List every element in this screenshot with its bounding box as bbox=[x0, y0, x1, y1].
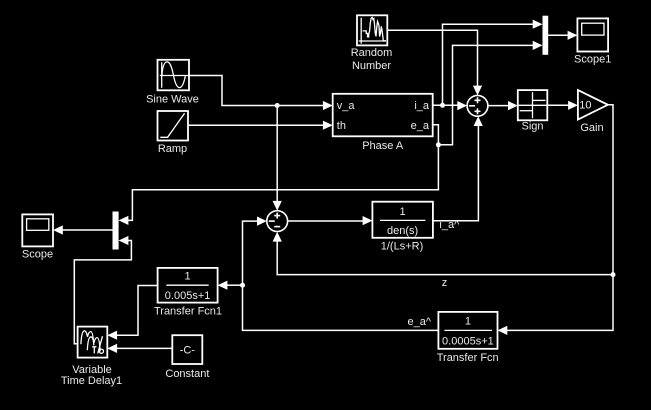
svg-text:Random: Random bbox=[351, 47, 393, 59]
block Constant bbox=[172, 335, 202, 364]
block Variable Time Delay1 bbox=[78, 327, 108, 358]
svg-text:Number: Number bbox=[352, 60, 391, 72]
svg-text:Sine Wave: Sine Wave bbox=[146, 94, 199, 106]
wire e_a junction to Mux1 bottom input bbox=[438, 41, 542, 145]
block Ramp bbox=[158, 111, 189, 141]
svg-text:z: z bbox=[442, 277, 448, 289]
wire Mux2 output to Scope bbox=[53, 225, 113, 234]
wire Random Number to sum S2 top bbox=[387, 30, 482, 95]
block Gain bbox=[578, 90, 608, 119]
junction e_a bbox=[436, 142, 441, 147]
block Random Number bbox=[357, 15, 387, 45]
svg-text:den(s): den(s) bbox=[387, 225, 418, 237]
junction i_a bbox=[440, 103, 445, 108]
svg-text:Transfer Fcn: Transfer Fcn bbox=[437, 352, 499, 364]
svg-text:i_a: i_a bbox=[414, 100, 430, 112]
wire sum S1 to 1/(Ls+R) input bbox=[288, 216, 373, 225]
mux Mux2 bbox=[113, 212, 119, 250]
wire Mux1 output to Scope1 bbox=[548, 31, 577, 40]
svg-text:th: th bbox=[337, 120, 346, 132]
svg-text:Constant: Constant bbox=[165, 368, 209, 380]
svg-text:1: 1 bbox=[400, 206, 406, 218]
wire z junction down to Transfer Fcn input bbox=[498, 275, 614, 335]
svg-text:1: 1 bbox=[185, 270, 191, 282]
block Transfer Fcn1 bbox=[158, 268, 218, 303]
junction z bbox=[611, 272, 616, 277]
mux Mux1 bbox=[543, 16, 549, 55]
svg-text:Ramp: Ramp bbox=[158, 143, 187, 155]
wire Phase A e_a to junction bbox=[433, 125, 439, 145]
wire Constant to Variable Time Delay1 bottom input bbox=[107, 344, 172, 353]
svg-text:0.005s+1: 0.005s+1 bbox=[165, 290, 211, 302]
svg-text:Scope: Scope bbox=[22, 249, 53, 261]
sum S1 (left) bbox=[267, 211, 288, 232]
svg-text:-C-: -C- bbox=[180, 344, 196, 356]
svg-text:Phase A: Phase A bbox=[362, 140, 404, 152]
wire z line to sum S1 bottom bbox=[273, 232, 613, 275]
wire Sign to Gain bbox=[547, 101, 578, 110]
junction on v_a wire bbox=[275, 103, 280, 108]
svg-text:10: 10 bbox=[579, 100, 591, 112]
wire v_a junction down to sum S1 top bbox=[273, 106, 282, 211]
svg-text:1: 1 bbox=[465, 316, 471, 328]
block Scope1 bbox=[577, 18, 608, 51]
svg-text:Sign: Sign bbox=[521, 120, 543, 132]
wire Transfer Fcn output to sum S1 left bbox=[243, 217, 439, 331]
wire 1/(Ls+R) output to sum S2 bottom bbox=[433, 116, 483, 221]
wire sum S2 to Sign bbox=[488, 101, 518, 110]
svg-text:1/(Ls+R): 1/(Ls+R) bbox=[381, 240, 424, 252]
wire junction to Transfer Fcn1 input bbox=[218, 281, 243, 290]
wire Gain output down to z junction bbox=[608, 105, 613, 275]
svg-text:i_a^: i_a^ bbox=[439, 219, 460, 231]
block Scope bbox=[22, 214, 53, 246]
svg-text:e_a^: e_a^ bbox=[407, 316, 431, 328]
wire i_a junction up to Mux1 top input bbox=[443, 20, 543, 106]
svg-text:Gain: Gain bbox=[580, 122, 603, 134]
block Transfer Fcn bbox=[438, 312, 497, 349]
block Sine Wave bbox=[158, 60, 190, 91]
label Variable Time Delay1 bbox=[61, 364, 122, 387]
svg-text:0.0005s+1: 0.0005s+1 bbox=[442, 335, 494, 347]
wire Sine Wave to Phase A v_a bbox=[189, 76, 333, 111]
svg-text:Time Delay1: Time Delay1 bbox=[61, 375, 122, 387]
sum S2 (right) bbox=[467, 95, 488, 116]
wire Transfer Fcn1 output to Variable Time Delay1 top input bbox=[107, 286, 157, 340]
wire e_a junction to Mux2 top input bbox=[119, 145, 439, 225]
block Phase A bbox=[333, 94, 433, 137]
wire Variable Time Delay1 output to Mux2 bottom input bbox=[74, 236, 131, 344]
svg-text:Transfer Fcn1: Transfer Fcn1 bbox=[154, 305, 222, 317]
block Sign bbox=[518, 90, 548, 120]
junction Transfer Fcn1 input bbox=[240, 283, 245, 288]
wire Ramp to Phase A th bbox=[188, 121, 333, 130]
svg-text:e_a: e_a bbox=[411, 120, 430, 132]
block Transfer 1/(Ls+R) bbox=[372, 202, 433, 238]
svg-text:Scope1: Scope1 bbox=[574, 54, 611, 66]
wire Phase A i_a to sum S2 left bbox=[433, 101, 467, 110]
label Random Number bbox=[351, 47, 393, 72]
svg-text:v_a: v_a bbox=[337, 100, 356, 112]
